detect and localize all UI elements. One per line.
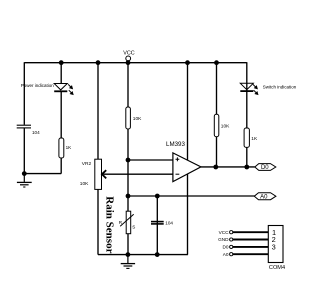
svg-text:LM393: LM393 (166, 141, 185, 148)
svg-text:3: 3 (272, 243, 276, 252)
svg-text:1K: 1K (251, 136, 258, 142)
svg-text:10K: 10K (133, 116, 142, 122)
svg-text:VCC: VCC (219, 230, 230, 235)
svg-text:COM4: COM4 (269, 265, 285, 271)
svg-text:104: 104 (165, 220, 173, 225)
svg-text:A0: A0 (260, 194, 268, 200)
svg-text:104: 104 (32, 130, 40, 135)
svg-text:S: S (132, 224, 135, 229)
svg-text:VCC: VCC (123, 51, 134, 57)
svg-text:A0: A0 (223, 252, 229, 257)
svg-text:VR2: VR2 (82, 161, 92, 167)
svg-text:Switch indication: Switch indication (263, 84, 297, 89)
svg-text:1K: 1K (66, 145, 73, 150)
svg-text:D0: D0 (223, 245, 229, 250)
svg-text:Rain Sensor: Rain Sensor (104, 196, 116, 253)
svg-text:10K: 10K (221, 124, 230, 130)
svg-text:D0: D0 (261, 165, 269, 171)
svg-text:GND: GND (218, 237, 229, 242)
svg-text:Power indication: Power indication (21, 83, 55, 88)
svg-text:10K: 10K (80, 181, 89, 187)
